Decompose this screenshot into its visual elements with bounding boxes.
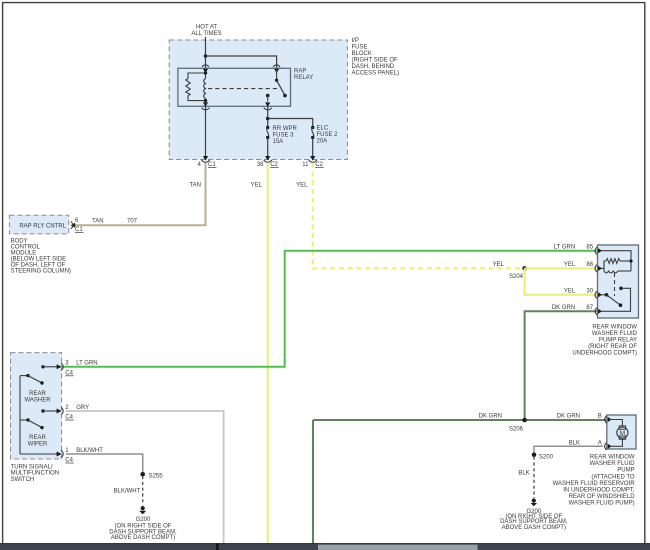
svg-text:20A: 20A (317, 139, 328, 145)
svg-text:YEL: YEL (251, 183, 263, 189)
label G200 left (109, 517, 177, 541)
wire BLK/WHT from pin 1 (66, 454, 143, 474)
svg-text:SWITCH: SWITCH (11, 477, 35, 483)
bottom scrollbar separator (216, 543, 219, 550)
svg-text:REAR OF WINDSHIELD: REAR OF WINDSHIELD (569, 494, 636, 500)
node junction hot feed (204, 54, 208, 58)
svg-text:IN UNDERHOOD COMPT,: IN UNDERHOOD COMPT, (563, 487, 635, 493)
connector pin at relay bottom right (to fuses) (264, 102, 272, 109)
svg-text:PUMP RELAY: PUMP RELAY (599, 338, 637, 344)
connector pin at relay top left (coil feed) (202, 65, 209, 73)
label REAR WIPER (28, 435, 48, 447)
wire BLK dashed to ground right (533, 457, 535, 499)
svg-text:FUSE 3: FUSE 3 (273, 133, 295, 139)
wire DK GRN down to page bottom (312, 420, 314, 544)
washer fluid pump relay box (598, 245, 639, 318)
bottom scrollbar thumb (318, 545, 478, 550)
pin label 3 C4 (65, 361, 74, 377)
pin label 38 C2 (257, 162, 279, 168)
label fuse 3 (273, 126, 298, 145)
label turn signal switch (11, 464, 60, 483)
node dot coil bottom (204, 99, 207, 102)
RAP relay coil left leg with resistor (186, 73, 206, 101)
svg-text:YEL: YEL (296, 183, 308, 189)
svg-text:FUSE 2: FUSE 2 (317, 132, 339, 138)
svg-text:85: 85 (586, 244, 593, 250)
svg-text:DK GRN: DK GRN (557, 413, 580, 419)
label fuse 2 (317, 126, 339, 145)
BCM RAP RLY CNTRL dashed box (9, 215, 68, 234)
dashed actuation link (208, 88, 278, 90)
svg-text:30: 30 (586, 288, 593, 294)
svg-text:YEL: YEL (493, 262, 505, 268)
svg-text:ABOVE DASH COMPT): ABOVE DASH COMPT) (502, 525, 566, 531)
svg-text:UNDERHOOD COMPT): UNDERHOOD COMPT) (572, 350, 637, 356)
bottom scrollbar track (0, 543, 650, 550)
svg-text:WASHER FLUID RESERVOIR: WASHER FLUID RESERVOIR (553, 481, 636, 487)
svg-text:TAN: TAN (92, 219, 104, 225)
connector pin 87 (595, 308, 602, 315)
wire GRY from pin 2 (66, 411, 224, 544)
switch internal bus (19, 376, 21, 454)
RAP relay box U1 (178, 68, 291, 106)
svg-text:BLK/WHT: BLK/WHT (114, 489, 141, 495)
label REAR WASHER (24, 391, 51, 403)
svg-text:REAR: REAR (29, 435, 46, 441)
svg-text:S200: S200 (539, 454, 554, 460)
svg-text:87: 87 (586, 305, 593, 311)
svg-text:REAR: REAR (29, 391, 46, 397)
dashed actuation link washer relay (614, 273, 616, 296)
wire BLK/WHT dashed to ground (142, 476, 144, 506)
wire fuse2 out (312, 138, 314, 157)
label washer fluid pump (553, 455, 636, 507)
pin label 1 C4 (65, 448, 74, 464)
svg-text:S255: S255 (149, 473, 164, 479)
connector pin 85 (595, 247, 602, 254)
connector pin B (605, 416, 612, 423)
svg-text:38: 38 (257, 162, 264, 168)
turn signal multifunction switch dashed box (11, 353, 62, 459)
svg-text:707: 707 (127, 219, 138, 225)
connector pin 3 C4 (57, 363, 64, 370)
washer relay coil resistor (601, 259, 633, 269)
connector pin 30 (595, 291, 602, 298)
wire YEL S204 to relay pin 86 (525, 267, 598, 269)
svg-text:86: 86 (586, 262, 593, 268)
wire YEL S204 down to relay pin 30 (525, 268, 598, 294)
connector pin at relay top right (switch feed) (273, 65, 280, 73)
splice S255 (140, 472, 145, 477)
svg-text:REAR WINDOW: REAR WINDOW (592, 325, 637, 331)
svg-text:WASHER FLUID: WASHER FLUID (589, 461, 635, 467)
svg-text:LT GRN: LT GRN (76, 361, 97, 367)
svg-text:11: 11 (302, 162, 309, 168)
rear washer switch (20, 365, 58, 385)
wire LT GRN from switch pin 3 to relay pin 85 (62, 251, 598, 367)
svg-text:YEL: YEL (564, 262, 576, 268)
node junction fuse feed (266, 117, 270, 121)
svg-text:RELAY: RELAY (294, 75, 313, 81)
connector pin 11 C2 at block bottom (309, 156, 317, 162)
connector pin A (605, 443, 612, 450)
svg-text:YEL: YEL (564, 288, 576, 294)
svg-text:15A: 15A (273, 139, 284, 145)
svg-text:PUMP: PUMP (617, 468, 634, 474)
pin label 6 C1 (75, 218, 84, 233)
svg-text:REAR WINDOW: REAR WINDOW (590, 455, 635, 461)
connector pin 86 (595, 265, 602, 272)
pin label 4 C1 (197, 162, 216, 168)
connector pin 38 C2 at block bottom (264, 156, 272, 162)
fuse RR WPR FUSE 3 15A (266, 126, 269, 139)
svg-text:ALL TIMES: ALL TIMES (191, 31, 221, 37)
svg-text:B: B (598, 413, 602, 419)
border frame top (2, 2, 645, 4)
svg-text:DASH, BEHIND: DASH, BEHIND (352, 64, 395, 70)
svg-text:I/P: I/P (352, 38, 359, 44)
connector pin at relay bottom left (to 4 C1) (202, 102, 210, 109)
pin label 11 C2 (302, 162, 323, 168)
wire branch to ELC fuse (268, 119, 313, 128)
wire hot branch to switch side (206, 56, 277, 68)
label G200 right (500, 509, 568, 531)
svg-text:G200: G200 (136, 517, 151, 523)
label RAP RELAY (294, 68, 313, 81)
wire YEL solid from 38 C2 down to page bottom (267, 163, 269, 544)
svg-text:ELC: ELC (317, 126, 329, 132)
svg-text:S204: S204 (509, 274, 524, 280)
label BODY CONTROL MODULE (11, 238, 71, 274)
node dot coil top (204, 71, 207, 74)
border frame right (644, 2, 646, 545)
connector pin 2 C4 (57, 407, 64, 414)
washer relay switch (601, 287, 631, 312)
wire relay switch out down (267, 106, 269, 127)
svg-text:BLK: BLK (518, 471, 529, 477)
washer relay coil winding (604, 261, 631, 273)
svg-text:TAN: TAN (189, 183, 201, 189)
svg-text:WASHER: WASHER (24, 398, 51, 404)
washer fluid pump box (607, 415, 636, 449)
wire YEL dashed from 11 C2 (313, 163, 525, 269)
svg-text:TURN SIGNAL/: TURN SIGNAL/ (11, 464, 53, 470)
rear wiper switch (20, 409, 58, 429)
svg-text:(RIGHT SIDE OF: (RIGHT SIDE OF (352, 58, 399, 64)
ground G200 left (139, 506, 146, 514)
svg-text:DK GRN: DK GRN (479, 413, 502, 419)
bottom scrollbar top edge (0, 543, 650, 545)
wire TAN 707 (73, 163, 206, 226)
pump motor M (611, 420, 629, 447)
svg-text:STEERING COLUMN): STEERING COLUMN) (11, 268, 71, 274)
svg-text:WASHER FLUID: WASHER FLUID (592, 331, 638, 337)
svg-text:GRY: GRY (76, 405, 89, 411)
fuse block I/P dashed box (169, 40, 347, 160)
RAP relay switch (266, 68, 287, 101)
svg-text:RAP RLY CNTRL: RAP RLY CNTRL (19, 223, 66, 229)
connector pin 6 C1 at BCM (71, 222, 76, 229)
svg-text:FUSE: FUSE (352, 45, 368, 51)
svg-text:WASHER FLUID PUMP): WASHER FLUID PUMP) (568, 501, 634, 507)
I/P fuse block label (352, 38, 400, 76)
ground G200 right (531, 499, 538, 507)
wire hot feed vertical (205, 37, 207, 69)
svg-text:MULTIFUNCTION: MULTIFUNCTION (11, 471, 60, 477)
connector pin 4 C1 at block bottom (201, 156, 209, 162)
wire BLK from pump pin A to S200 (534, 446, 603, 455)
svg-text:BLK/WHT: BLK/WHT (76, 448, 103, 454)
svg-text:RAP: RAP (294, 68, 306, 74)
wire fuse3 out (267, 138, 269, 157)
svg-text:HOT AT: HOT AT (196, 25, 217, 31)
wire DK GRN relay pin 87 down to S206 (525, 311, 598, 420)
splice S206 (522, 418, 527, 423)
connector pin 1 C4 (57, 450, 64, 457)
wire relay coil out down to 4 C1 (205, 106, 207, 156)
border frame left (2, 2, 4, 545)
wire DK GRN horizontal to pump pin B (313, 419, 607, 421)
svg-text:S206: S206 (509, 427, 524, 433)
splice S204 (522, 266, 527, 271)
label HOT AT ALL TIMES (191, 25, 221, 37)
svg-text:WIPER: WIPER (28, 442, 48, 448)
pin label 2 C4 (65, 405, 74, 421)
RAP relay coil winding (204, 73, 206, 101)
svg-text:ABOVE DASH COMPT): ABOVE DASH COMPT) (111, 535, 175, 541)
label washer relay (572, 325, 637, 357)
splice S200 (532, 453, 537, 458)
fuse ELC FUSE 2 20A (311, 126, 314, 139)
svg-text:ACCESS PANEL): ACCESS PANEL) (352, 70, 400, 76)
washer relay internal pin85 lead (601, 251, 631, 271)
switch wire to pin 1 (20, 453, 58, 455)
svg-text:(RIGHT REAR OF: (RIGHT REAR OF (588, 344, 637, 350)
svg-text:RR WPR: RR WPR (273, 126, 298, 132)
svg-text:LT GRN: LT GRN (554, 244, 575, 250)
svg-text:(ATTACHED TO: (ATTACHED TO (591, 474, 635, 480)
svg-text:DK GRN: DK GRN (552, 305, 575, 311)
svg-text:BLOCK: BLOCK (352, 51, 372, 57)
